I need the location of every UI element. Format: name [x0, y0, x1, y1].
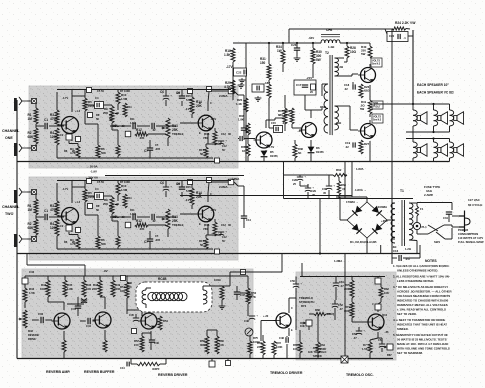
label 1.2MA	[334, 259, 346, 263]
label tremolo strength	[299, 296, 314, 308]
electrolytic C11	[218, 132, 232, 144]
capacitor C18	[344, 82, 355, 91]
boxed capacitor C17	[294, 80, 316, 95]
svg-text:1.8K: 1.8K	[67, 287, 73, 291]
wire emitter down	[71, 226, 73, 232]
svg-text:47: 47	[342, 187, 345, 191]
capacitor C9	[176, 91, 185, 98]
svg-text:3. * DC MILLIVOLTS AS READ DIR: 3. * DC MILLIVOLTS AS READ DIRECTLY	[393, 285, 448, 289]
boxed junction osc top right	[375, 277, 381, 285]
label texture value 8	[177, 91, 192, 102]
svg-text:R64: R64	[320, 343, 325, 347]
voltage callout box lower	[372, 114, 383, 123]
wire collector supply rail	[57, 89, 231, 91]
svg-text:-.26: -.26	[384, 330, 389, 334]
svg-text:ONE: ONE	[5, 136, 13, 140]
wire switch right	[444, 225, 452, 239]
potentiometer R volume	[103, 197, 119, 219]
wire r68 ends	[309, 313, 330, 315]
svg-text:56K: 56K	[101, 151, 106, 155]
wire q8 base	[52, 320, 55, 322]
svg-text:→ 100MA: → 100MA	[374, 205, 388, 209]
wire q12 base	[352, 318, 367, 322]
wire input column	[35, 195, 37, 237]
wire collector up	[71, 181, 73, 204]
wire top supply rail y43 right of choke	[340, 42, 361, 44]
wire cap to divider	[49, 125, 64, 127]
wire r10	[117, 181, 119, 202]
svg-text:63Ω: 63Ω	[364, 89, 370, 93]
svg-text:300K: 300K	[344, 309, 350, 313]
resistor R48 reverb	[82, 276, 92, 297]
resistor R74b	[272, 341, 282, 359]
svg-text:2.3Ω: 2.3Ω	[337, 65, 344, 69]
svg-text:TREBLE: TREBLE	[172, 132, 184, 136]
wire q10 collector	[146, 306, 151, 310]
wire bus under channel one y162	[17, 161, 450, 163]
AC plug	[452, 211, 470, 233]
wire bias bottom	[56, 236, 58, 249]
svg-text:See N.3: See N.3	[373, 120, 382, 122]
svg-text:.47: .47	[353, 336, 357, 340]
wire tone to treble	[137, 217, 166, 225]
wire driver emitter rail	[142, 333, 151, 336]
wire r31 top	[268, 42, 314, 64]
svg-text:R15: R15	[186, 94, 191, 98]
wire q9 collector	[100, 297, 105, 309]
boxed junction J8 mid	[88, 113, 93, 118]
svg-text:10Ω: 10Ω	[350, 50, 356, 54]
svg-text:R72: R72	[276, 341, 281, 345]
label texture value 3	[96, 204, 113, 212]
boxed junction reverb rail	[121, 276, 133, 290]
svg-text:5K: 5K	[96, 117, 99, 121]
svg-text:TREMOLO DRIVER: TREMOLO DRIVER	[270, 371, 303, 375]
svg-text:VOLTAGES MEASURED FROM POINTS: VOLTAGES MEASURED FROM POINTS	[397, 294, 450, 298]
svg-text:30: 30	[228, 132, 231, 136]
svg-text:C23: C23	[291, 43, 297, 47]
svg-text:.005: .005	[139, 136, 145, 140]
boxed junction output	[228, 179, 234, 185]
wire Q6 collector	[369, 64, 371, 67]
capacitor C3 tone input	[133, 214, 135, 220]
svg-text:R7 100K: R7 100K	[120, 89, 130, 93]
svg-text:1N456: 1N456	[316, 150, 324, 154]
capacitor C49 emitter	[279, 336, 288, 359]
label texture value 6	[185, 101, 212, 135]
svg-text:↓ 34V 6A: ↓ 34V 6A	[86, 176, 99, 180]
svg-text:.02: .02	[344, 87, 348, 91]
svg-text:C5: C5	[113, 124, 117, 128]
transistor Q5 driver	[254, 132, 273, 148]
footswitch jack J5	[245, 328, 253, 336]
svg-text:100K: 100K	[276, 345, 282, 349]
label q5 voltages	[268, 134, 274, 149]
wire r30	[312, 43, 314, 78]
resistor R52 driver load	[158, 316, 168, 330]
boxed capacitor C20	[387, 32, 408, 42]
svg-text:LESS OTHERWISE NOTED.: LESS OTHERWISE NOTED.	[397, 279, 434, 283]
boxed junction reverb input	[22, 270, 35, 284]
wire treble bottom	[167, 229, 169, 237]
label -9V reverb	[103, 269, 108, 273]
svg-text:R66: R66	[313, 346, 318, 350]
svg-text:RC4B: RC4B	[158, 277, 167, 281]
label reverb driver	[158, 373, 188, 377]
svg-text:REVERB DRIVER: REVERB DRIVER	[158, 373, 188, 377]
svg-text:C12: C12	[221, 132, 226, 136]
svg-text:C30: C30	[38, 312, 44, 316]
svg-text:1.1Ω: 1.1Ω	[320, 105, 327, 109]
svg-text:1.5M: 1.5M	[121, 188, 128, 192]
svg-text:CHANNEL: CHANNEL	[2, 205, 20, 209]
svg-text:Q10: Q10	[382, 313, 388, 317]
boxed junction J24 bottom	[341, 356, 348, 363]
transformer T2 core	[325, 51, 332, 135]
output coupling label	[219, 94, 232, 98]
svg-text:5W: 5W	[316, 58, 321, 62]
svg-text:1.5K: 1.5K	[224, 53, 231, 57]
wire bridge top riser	[366, 197, 368, 202]
svg-text:-1.5V: -1.5V	[210, 208, 216, 212]
capacitor C21 ch1 out	[238, 95, 251, 140]
resistor R55 horizontal	[131, 359, 166, 372]
svg-text:5K: 5K	[200, 243, 204, 247]
resistor R10 top mid	[116, 183, 128, 195]
wire jack1 to box	[27, 100, 31, 102]
svg-text:R11: R11	[127, 105, 132, 109]
boxed callout FOR VOLT	[372, 101, 383, 109]
resistor R18	[224, 48, 235, 62]
component below bus 2	[226, 359, 231, 366]
svg-text:± 10%. READ WITH ALL CONTROLS: ± 10%. READ WITH ALL CONTROLS	[397, 308, 446, 312]
label -17V	[226, 65, 234, 69]
svg-text:C12: C12	[222, 235, 227, 239]
wire vol top	[111, 196, 113, 197]
wire return chain	[247, 276, 249, 288]
resistor R44 reverb bias1	[40, 276, 50, 297]
wire Q7 emitter	[369, 141, 371, 161]
wire reverb top rail	[25, 276, 248, 278]
svg-text:D1, D2,D3,D4-A14B: D1, D2,D3,D4-A14B	[350, 240, 377, 244]
svg-text:SPEED: SPEED	[313, 354, 322, 358]
input jack J3	[19, 188, 27, 196]
wire collector up	[71, 90, 73, 113]
wire feedback bottom rail y198	[284, 198, 414, 200]
svg-text:DRIVE: DRIVE	[28, 337, 36, 341]
svg-text:WITH VOLUME AND TONE CONTROLS: WITH VOLUME AND TONE CONTROLS	[397, 347, 450, 351]
wire r47	[24, 284, 26, 308]
potentiometer R treble	[162, 118, 184, 138]
capacitor C40 reverb	[32, 312, 52, 323]
wire bias bottom	[56, 145, 58, 158]
label 1.8A right	[356, 167, 364, 171]
svg-text:1.8VA: 1.8VA	[356, 167, 364, 171]
svg-text:C4: C4	[95, 96, 99, 100]
resistor R63 fb	[337, 177, 346, 199]
wire speaker mid stub	[412, 132, 414, 139]
svg-text:1.5M: 1.5M	[130, 121, 136, 125]
svg-text:2K: 2K	[72, 149, 75, 153]
svg-text:R43: R43	[28, 329, 33, 333]
reverb tank dashed box	[136, 277, 212, 312]
svg-text:R27: R27	[364, 142, 370, 146]
svg-text:1W: 1W	[277, 49, 282, 53]
wire speaker top rail row2	[406, 137, 450, 139]
wire r6 top	[85, 116, 98, 145]
reverb tank output coil	[203, 290, 207, 304]
resistor R16 feedback	[203, 131, 217, 145]
wire cap to divider	[49, 216, 64, 218]
svg-text:R57: R57	[134, 339, 139, 343]
svg-text:+: +	[304, 175, 306, 179]
svg-text:50 WATTS IS 25 MILLIVOLTS. TES: 50 WATTS IS 25 MILLIVOLTS. TESTS	[397, 338, 447, 342]
channel two label	[2, 205, 20, 216]
channel two preamp shaded region	[29, 177, 238, 260]
wire r39	[292, 124, 302, 128]
svg-text:C17: C17	[296, 83, 302, 87]
wire vol bottom	[112, 123, 118, 130]
svg-text:R9: R9	[109, 204, 113, 208]
capacitor C coupling input	[44, 118, 48, 129]
svg-text:1.5K: 1.5K	[29, 291, 35, 295]
svg-text:5.6K: 5.6K	[186, 98, 192, 102]
svg-text:C6: C6	[160, 181, 164, 185]
svg-text:C51: C51	[339, 280, 344, 284]
svg-text:B: B	[199, 101, 201, 105]
wire trem osc vertical x345	[344, 254, 346, 357]
wire box to q12	[378, 298, 381, 312]
wire output node	[370, 104, 374, 117]
wire T2 sec top	[322, 84, 328, 96]
resistor R75 foot	[248, 336, 260, 359]
svg-text:C5 50: C5 50	[97, 180, 104, 184]
svg-text:FULL SIGNAL/120W: FULL SIGNAL/120W	[458, 240, 484, 244]
label tremolo driver	[270, 371, 303, 375]
svg-text:.02: .02	[121, 215, 125, 219]
svg-text:C46: C46	[154, 341, 159, 345]
svg-text:C28: C28	[292, 178, 297, 182]
svg-text:1.2Ω: 1.2Ω	[405, 247, 412, 251]
wire c9	[181, 180, 183, 197]
label bridge diodes	[350, 240, 377, 244]
svg-text:+: +	[225, 230, 227, 234]
resistor R input upper	[28, 108, 39, 124]
wire c6	[165, 89, 167, 106]
svg-text:C45: C45	[129, 313, 134, 317]
svg-text:VOLTS: VOLTS	[372, 60, 380, 63]
wire osc top rail	[300, 276, 385, 278]
wire emitter bottom rail	[57, 157, 213, 159]
svg-text:25: 25	[293, 182, 296, 186]
wire r33 drop x269	[269, 98, 274, 128]
wire power vertical x392	[391, 162, 393, 259]
wire d1	[264, 150, 266, 162]
resistor R41 output	[360, 100, 372, 114]
resistor R38 emitter	[293, 140, 303, 162]
svg-text:PL1: PL1	[422, 225, 428, 229]
svg-text:C22: C22	[236, 71, 242, 75]
capacitor C52 osc	[332, 300, 344, 320]
capacitor C8 mid	[152, 123, 154, 129]
svg-text:REVERB AMP.: REVERB AMP.	[46, 370, 70, 374]
svg-text:C18: C18	[344, 83, 350, 87]
label R24	[395, 21, 416, 25]
svg-text:.02: .02	[345, 145, 349, 149]
diode D6 bridge	[352, 224, 362, 234]
svg-text:SET TO MAXIMUM.: SET TO MAXIMUM.	[397, 351, 423, 355]
svg-text:C6: C6	[160, 90, 164, 94]
capacitor C10 bass	[144, 239, 153, 244]
label 34V 6A	[86, 176, 99, 180]
svg-text:R9: R9	[109, 113, 113, 117]
label -34V	[308, 36, 314, 40]
svg-text:R65: R65	[293, 343, 298, 347]
wire tank out	[203, 286, 230, 290]
svg-text:-4.7V: -4.7V	[62, 187, 68, 191]
svg-text:10K: 10K	[219, 343, 224, 347]
wire r36b	[284, 95, 286, 131]
boxed junction J16	[215, 249, 220, 254]
svg-text:2.6MA: 2.6MA	[219, 185, 228, 189]
wire treble bottom	[167, 138, 169, 146]
wire q8 collector	[48, 297, 64, 310]
reverb tank input coil	[142, 290, 146, 304]
label texture value 2	[60, 133, 75, 153]
svg-text:170MA →: 170MA →	[346, 200, 359, 204]
emitter bypass box	[66, 225, 81, 233]
resistor R24	[392, 27, 406, 30]
svg-text:R54: R54	[163, 319, 168, 323]
svg-text:+: +	[256, 314, 258, 318]
wire r24 left	[385, 29, 410, 35]
svg-text:TREMOLO OSC.: TREMOLO OSC.	[346, 373, 374, 377]
wire r6 top	[85, 207, 98, 236]
resistor R50b	[111, 276, 121, 297]
boxed junction J11	[207, 87, 212, 92]
boxed junction J11	[207, 178, 212, 183]
tone network box	[125, 131, 131, 137]
svg-text:150: 150	[134, 343, 139, 347]
svg-text:C12: C12	[222, 144, 227, 148]
svg-text:C7: C7	[155, 143, 159, 147]
resistor R29	[224, 80, 235, 94]
resistor R5 collector load	[83, 98, 96, 111]
reverb tank spring	[148, 292, 187, 300]
svg-text:CONSUMPTION: CONSUMPTION	[458, 232, 478, 236]
svg-text:CHANNEL: CHANNEL	[2, 129, 20, 133]
svg-text:+1.3: +1.3	[75, 200, 81, 204]
svg-text:R15: R15	[186, 185, 191, 189]
svg-text:C29: C29	[311, 189, 316, 193]
electrolytic C56 strength	[290, 277, 302, 295]
input jack J1	[19, 97, 27, 105]
choke CH6	[321, 28, 340, 49]
wire x352 power riser	[351, 162, 353, 198]
svg-text:2K: 2K	[72, 240, 75, 244]
svg-text:20: 20	[310, 90, 313, 94]
wire T2 to Q7 base	[335, 106, 359, 130]
label q11 volts	[291, 307, 293, 332]
svg-text:C5: C5	[113, 215, 117, 219]
svg-text:C20: C20	[389, 34, 395, 38]
wire c6	[165, 180, 167, 197]
resistor R64 lower	[316, 314, 326, 359]
svg-text:10K: 10K	[384, 291, 389, 295]
svg-text:470K: 470K	[50, 208, 58, 212]
resistor R35 below base	[241, 139, 250, 162]
svg-text:5W: 5W	[361, 52, 366, 56]
capacitor C coupling input	[44, 209, 48, 220]
ground stub reverb right	[240, 293, 253, 298]
transformer T2 secondary	[320, 84, 328, 133]
resistor R16 feedback	[203, 222, 217, 236]
svg-text:5K: 5K	[109, 208, 112, 212]
capacitor C21b ch2 out	[238, 186, 251, 228]
resistor R6 lower mid	[96, 145, 106, 158]
svg-text:+: +	[333, 184, 335, 188]
svg-text:R24 2.2K ½W: R24 2.2K ½W	[395, 21, 416, 25]
wire q2 base	[180, 122, 198, 124]
svg-text:470K: 470K	[50, 117, 58, 121]
electrolytic C6	[160, 90, 172, 99]
resistor R bias lower	[50, 219, 59, 236]
switch SW1	[428, 225, 445, 244]
svg-text:D6: D6	[316, 146, 320, 150]
svg-text:R11: R11	[127, 196, 132, 200]
svg-text:100Ω: 100Ω	[214, 278, 221, 282]
tremolo oscillator shaded region	[296, 272, 396, 360]
svg-text:C54: C54	[378, 338, 383, 342]
resistor R17 emitter	[199, 147, 208, 158]
label fuse type	[424, 185, 440, 197]
electrolytic C6	[160, 181, 172, 190]
svg-text:C: C	[210, 101, 212, 105]
svg-text:-9V: -9V	[103, 269, 108, 273]
svg-text:R71: R71	[345, 305, 350, 309]
capacitor C41 q8	[71, 297, 81, 316]
svg-text:R68: R68	[315, 308, 320, 312]
transistor Q4b phase splitter	[299, 123, 317, 138]
svg-text:C14: C14	[246, 218, 251, 222]
svg-text:C21: C21	[246, 130, 251, 134]
svg-text:R67: R67	[387, 353, 392, 357]
wire driver base	[127, 310, 142, 316]
svg-text:↑1.6MA: ↑1.6MA	[230, 177, 239, 181]
resistor R26 base bleed	[359, 84, 370, 98]
speaker SP1 with coil	[413, 104, 427, 132]
svg-text:C5 50: C5 50	[97, 89, 104, 93]
label -21V	[306, 76, 312, 80]
capacitor C31 line	[443, 203, 452, 223]
label texture value 3	[96, 113, 113, 121]
resistor R34 supply	[276, 45, 285, 64]
wire c9	[181, 89, 183, 106]
svg-text:C7: C7	[155, 234, 159, 238]
transistor Q1	[59, 117, 79, 134]
wire c20 to bus	[408, 35, 413, 37]
resistor R14	[190, 188, 202, 205]
wire vertical x289 rail to loop	[288, 29, 290, 43]
label texture value 4	[113, 208, 136, 219]
wire output top	[212, 182, 238, 186]
channel one preamp shaded region	[29, 86, 238, 168]
boxed pot strength	[300, 320, 312, 328]
capacitor C47 driver	[149, 331, 160, 350]
boxed junction J20	[132, 329, 137, 334]
wire q9 emitter	[104, 330, 106, 340]
transistor Q9 reverb buffer	[93, 312, 112, 328]
